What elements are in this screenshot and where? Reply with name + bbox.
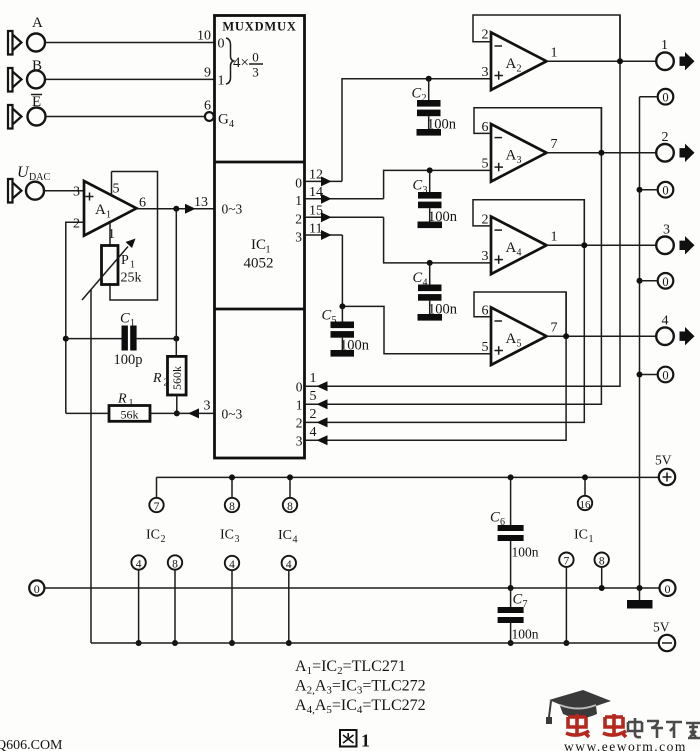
- input connector B: [8, 58, 45, 92]
- svg-text:2: 2: [73, 217, 80, 232]
- junction A4 out: [581, 242, 587, 248]
- svg-text:2: 2: [517, 64, 522, 75]
- svg-text:7: 7: [523, 599, 528, 610]
- svg-text:3: 3: [295, 230, 302, 245]
- mux out pin 15: [306, 216, 384, 218]
- IC1 pin8 stub to 0V: [601, 567, 603, 588]
- mux out pin 14: [306, 198, 384, 200]
- svg-text:A: A: [506, 331, 517, 347]
- svg-text:1: 1: [108, 227, 115, 242]
- svg-text:A: A: [506, 148, 517, 164]
- svg-text:C: C: [412, 86, 422, 102]
- riser pin12 to A2+: [342, 79, 491, 182]
- svg-text:1: 1: [551, 46, 558, 61]
- +5V rail: [157, 476, 659, 478]
- input connector A: [8, 15, 45, 55]
- capacitor C2: [412, 76, 457, 136]
- op-amp A1: [73, 181, 146, 242]
- return pin 4: [306, 292, 567, 440]
- svg-text:A1=IC2=TLC271: A1=IC2=TLC271: [295, 658, 406, 677]
- svg-text:IC: IC: [278, 528, 292, 543]
- svg-text:0: 0: [662, 369, 668, 383]
- svg-text:3: 3: [73, 185, 80, 200]
- svg-text:5: 5: [517, 339, 522, 350]
- junction C1 left: [63, 336, 69, 342]
- IC4 pin8 stub: [289, 477, 291, 497]
- capacitor C3: [413, 167, 458, 228]
- op-amp A2: [482, 28, 558, 91]
- IC1 pin7 stub to -5V: [565, 567, 567, 643]
- svg-text:100n: 100n: [512, 627, 539, 642]
- svg-text:100n: 100n: [428, 209, 458, 225]
- capacitor C1: [114, 311, 143, 369]
- wire B input to pin 9: [45, 78, 214, 80]
- IC4 pin4 circle: [282, 556, 296, 570]
- op-amp A5: [482, 304, 558, 366]
- svg-text:Q606.COM: Q606.COM: [0, 738, 63, 751]
- svg-text:5: 5: [310, 389, 317, 404]
- svg-text:C: C: [490, 510, 500, 526]
- svg-text:4: 4: [229, 559, 235, 571]
- watermark eeworm logo cap: [546, 690, 611, 724]
- svg-text:2: 2: [310, 407, 317, 422]
- svg-text:3: 3: [482, 249, 489, 264]
- svg-text:IC: IC: [251, 237, 266, 253]
- IC1 pin16 stub: [584, 477, 586, 495]
- svg-text:56k: 56k: [121, 408, 139, 422]
- output terminal 3: [656, 237, 674, 255]
- IC4 pin8 circle: [283, 498, 297, 512]
- svg-text:A: A: [506, 240, 517, 256]
- wire C1 left: [66, 338, 122, 340]
- svg-text:0: 0: [218, 37, 225, 52]
- svg-text:3: 3: [663, 223, 670, 238]
- svg-text:15: 15: [309, 204, 323, 219]
- A4 feedback loop: [473, 200, 584, 246]
- svg-text:4: 4: [286, 559, 292, 571]
- output terminal 4: [656, 327, 674, 345]
- svg-text:7: 7: [551, 137, 558, 152]
- resistor R1: [109, 392, 150, 422]
- IC1 pin16 circle: [578, 496, 592, 510]
- svg-text:5: 5: [332, 315, 337, 326]
- capacitor C4: [413, 260, 458, 321]
- svg-text:4: 4: [136, 558, 142, 570]
- svg-text:13: 13: [194, 195, 208, 210]
- output arrow 2: [680, 144, 695, 162]
- IC2 pin7 circle: [149, 498, 163, 512]
- IC1 pin8 circle: [595, 553, 609, 567]
- IC1 block outline MUXDMUX/4052: [215, 16, 305, 459]
- brace: [226, 38, 234, 84]
- svg-text:2: 2: [482, 28, 489, 43]
- svg-text:A: A: [95, 202, 106, 218]
- svg-text:14: 14: [309, 185, 323, 200]
- wire E input to pin 6: [46, 116, 205, 118]
- svg-text:2: 2: [662, 130, 669, 145]
- svg-text:8: 8: [172, 558, 178, 570]
- svg-text:7: 7: [154, 501, 160, 513]
- A1 feedback loop to P1 bottom: [110, 172, 158, 301]
- output arrow 3: [680, 236, 695, 254]
- svg-text:2: 2: [422, 93, 427, 104]
- A2 output wire: [547, 60, 657, 62]
- svg-text:DAC: DAC: [29, 172, 50, 183]
- R2 bottom wire: [176, 395, 178, 413]
- ground terminal 0c: [658, 273, 674, 289]
- svg-text:100n: 100n: [428, 302, 458, 318]
- A4 output wire: [547, 244, 657, 246]
- svg-text:2: 2: [161, 534, 166, 545]
- svg-text:5V: 5V: [653, 620, 670, 635]
- svg-text:3: 3: [482, 65, 489, 80]
- A3 feedback loop: [474, 108, 601, 153]
- wire C1 right: [137, 338, 177, 340]
- pin 3 arrow (out of mux): [188, 408, 199, 418]
- 0V terminal left: [29, 580, 44, 595]
- svg-text:G: G: [218, 112, 229, 128]
- IC2 pin7 stub: [156, 477, 158, 497]
- svg-text:6: 6: [500, 517, 505, 528]
- svg-text:3: 3: [252, 65, 259, 80]
- svg-text:6: 6: [139, 196, 146, 211]
- junction C1 right / R2 top: [173, 336, 179, 342]
- ground terminal 0a: [658, 89, 674, 105]
- svg-text:0: 0: [34, 582, 40, 596]
- mux out pin 11: [306, 234, 343, 236]
- pin 13 arrow and wire from A1: [137, 208, 214, 210]
- svg-text:4: 4: [517, 248, 522, 259]
- svg-text:7: 7: [564, 556, 570, 568]
- capacitor C7: [498, 588, 539, 646]
- +5V terminal: [659, 469, 675, 485]
- potentiometer P1: [82, 239, 142, 301]
- svg-text:2: 2: [295, 212, 302, 227]
- svg-text:P: P: [121, 253, 129, 268]
- input connector E-bar: [8, 94, 46, 129]
- A1 pin2 wire to left rail: [66, 222, 84, 413]
- R1 wires: [66, 412, 109, 414]
- svg-text:0: 0: [662, 91, 668, 105]
- svg-text:3: 3: [517, 155, 522, 166]
- output terminal 1: [656, 52, 674, 70]
- dropper pin11 to C5 node: [342, 235, 491, 354]
- wire A input to pin 10: [45, 42, 214, 44]
- junction R2/R1: [174, 410, 180, 416]
- svg-text:E: E: [32, 94, 41, 110]
- svg-text:C: C: [413, 270, 423, 286]
- svg-text:A: A: [506, 56, 517, 72]
- P1 wiper rail down to -5V: [90, 290, 92, 644]
- svg-text:C: C: [513, 592, 523, 608]
- input connector U_DAC: [8, 164, 50, 203]
- junction A3 out: [598, 150, 604, 156]
- A1 pin1 stub to P1: [109, 222, 111, 246]
- svg-text:4: 4: [310, 425, 317, 440]
- vertical A1 out to R2: [175, 209, 177, 357]
- -5V terminal: [659, 635, 675, 651]
- svg-text:1: 1: [661, 38, 668, 53]
- op-amp A4: [482, 213, 558, 275]
- ground terminal 0b: [658, 182, 674, 198]
- svg-text:1: 1: [106, 210, 111, 221]
- IC2 pin4 circle: [131, 555, 145, 569]
- junction A1 out: [173, 206, 179, 212]
- svg-text:100n: 100n: [340, 338, 370, 354]
- ground terminal 0d: [658, 367, 674, 383]
- output arrow 1: [680, 52, 695, 70]
- svg-text:C: C: [413, 178, 423, 194]
- ground rail right: [639, 97, 641, 588]
- svg-text:0~3: 0~3: [222, 407, 243, 422]
- svg-text:R: R: [117, 392, 127, 407]
- -5V rail: [91, 642, 659, 644]
- IC1 pin7 circle: [559, 553, 573, 567]
- svg-text:MUXDMUX: MUXDMUX: [222, 20, 296, 34]
- svg-text:1: 1: [130, 318, 135, 329]
- IC3 pin8 stub: [231, 477, 233, 497]
- A5 feedback loop: [474, 292, 566, 336]
- svg-text:2: 2: [296, 416, 303, 431]
- svg-text:7: 7: [551, 321, 558, 336]
- svg-text:A: A: [32, 15, 43, 31]
- A2 feedback loop: [473, 15, 620, 61]
- svg-text:16: 16: [580, 499, 592, 511]
- output terminal 2: [656, 144, 674, 162]
- svg-text:560k: 560k: [170, 366, 184, 390]
- riser pin14 to A3+: [384, 170, 491, 198]
- IC3 pin4 circle: [225, 556, 239, 570]
- A1 pin5 stub: [111, 172, 113, 195]
- A5 output wire: [547, 335, 657, 337]
- svg-text:www.eeworm.com: www.eeworm.com: [564, 739, 687, 751]
- svg-text:4: 4: [662, 314, 669, 329]
- junction A5 out: [563, 333, 569, 339]
- svg-text:5: 5: [113, 182, 120, 197]
- svg-text:8: 8: [287, 501, 293, 513]
- svg-text:8: 8: [229, 501, 235, 513]
- svg-text:0~3: 0~3: [222, 202, 243, 217]
- svg-text:11: 11: [309, 222, 322, 237]
- svg-text:1: 1: [266, 245, 271, 256]
- svg-text:25k: 25k: [121, 271, 142, 286]
- svg-text:0: 0: [662, 184, 668, 198]
- svg-text:C: C: [322, 308, 332, 324]
- dropper pin15 to A4+: [384, 217, 491, 263]
- svg-text:1: 1: [361, 731, 370, 751]
- return pin 1: [306, 15, 621, 386]
- watermark dianzi xiazaizhan gray characters: [628, 718, 700, 738]
- junction ground rail on 0V: [637, 585, 643, 591]
- capacitor C5: [322, 303, 370, 356]
- svg-text:100n: 100n: [427, 117, 457, 133]
- svg-text:100n: 100n: [512, 545, 539, 560]
- svg-text:9: 9: [204, 66, 211, 81]
- block divider 2: [215, 308, 305, 311]
- svg-text:10: 10: [197, 29, 211, 44]
- svg-text:B: B: [32, 58, 42, 74]
- svg-text:1: 1: [295, 193, 302, 208]
- IC3 pin8 circle: [225, 498, 239, 512]
- output arrow 4: [680, 327, 695, 345]
- svg-text:1: 1: [130, 260, 135, 271]
- svg-text:4×: 4×: [233, 55, 249, 71]
- A3 output wire: [547, 152, 657, 154]
- svg-text:IC: IC: [220, 528, 234, 543]
- capacitor C6: [490, 474, 539, 591]
- svg-text:1: 1: [296, 398, 303, 413]
- svg-text:3: 3: [235, 534, 240, 545]
- svg-text:5: 5: [482, 340, 489, 355]
- wire UDAC to A1 pin3: [44, 190, 84, 192]
- svg-text:A2,A3=IC3=TLC272: A2,A3=IC3=TLC272: [295, 678, 426, 697]
- svg-text:0: 0: [295, 176, 302, 191]
- svg-text:1: 1: [551, 230, 558, 245]
- 0V terminal right: [660, 580, 676, 596]
- figure label: 图 1: [340, 730, 357, 747]
- svg-text:1: 1: [310, 371, 317, 386]
- svg-text:2: 2: [164, 378, 169, 389]
- svg-text:12: 12: [309, 168, 323, 183]
- 0V rail: [45, 587, 660, 589]
- return pin 5: [306, 108, 602, 405]
- resistor R2: [152, 356, 186, 395]
- watermark chongchong red characters: [566, 714, 626, 737]
- svg-text:3: 3: [423, 185, 428, 196]
- svg-text:A4,A5=IC4=TLC272: A4,A5=IC4=TLC272: [295, 697, 426, 716]
- svg-text:C: C: [120, 311, 130, 327]
- svg-text:4052: 4052: [244, 256, 274, 272]
- svg-text:1: 1: [589, 534, 594, 545]
- op-amp A3: [482, 120, 558, 182]
- block divider 1: [215, 161, 305, 164]
- svg-text:5V: 5V: [655, 453, 672, 468]
- svg-text:0: 0: [665, 582, 671, 596]
- svg-text:8: 8: [599, 556, 605, 568]
- svg-text:0: 0: [252, 50, 259, 65]
- svg-text:5: 5: [482, 157, 489, 172]
- ground symbol: [639, 588, 641, 600]
- return pin 2: [306, 200, 585, 423]
- svg-text:0: 0: [296, 380, 303, 395]
- svg-text:0: 0: [662, 275, 668, 289]
- svg-text:4: 4: [293, 535, 298, 546]
- svg-text:R: R: [152, 371, 162, 386]
- svg-text:4: 4: [229, 119, 234, 130]
- stubs pins to -5V rail: [138, 570, 140, 643]
- IC2 pin8 circle: [168, 555, 182, 569]
- svg-text:IC: IC: [574, 528, 588, 543]
- mux out pin 12: [306, 180, 343, 182]
- G4 inverter bubble: [205, 112, 214, 121]
- svg-text:3: 3: [296, 434, 303, 449]
- svg-text:IC: IC: [146, 528, 160, 543]
- svg-text:3: 3: [204, 399, 211, 414]
- svg-text:100p: 100p: [114, 352, 143, 368]
- svg-text:1: 1: [218, 74, 225, 89]
- junction A2 out: [617, 58, 623, 64]
- svg-text:4: 4: [423, 278, 428, 289]
